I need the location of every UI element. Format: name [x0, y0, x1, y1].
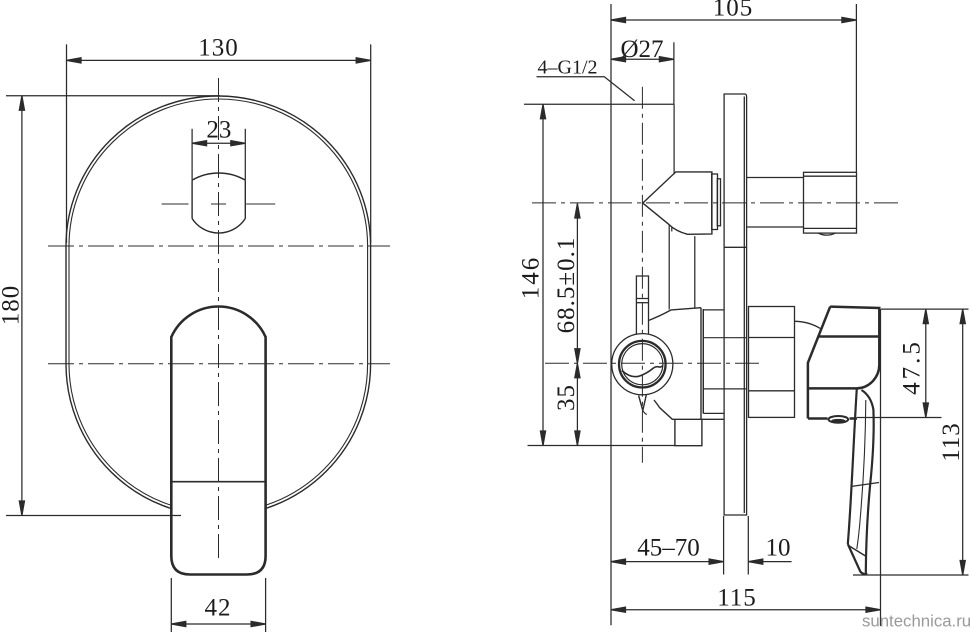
plate inner outline (front view)	[69, 99, 368, 513]
dimension 130 line	[67, 59, 371, 61]
dimension 23 extension lines	[191, 129, 193, 180]
collar ring 1	[712, 174, 718, 230]
diameter 27 right extension line	[673, 42, 675, 104]
svg-text:105: 105	[713, 0, 754, 22]
pointer below cartridge	[639, 395, 647, 411]
dimension 47.5 line	[925, 309, 927, 417]
handle blade	[848, 389, 874, 574]
svg-text:42: 42	[205, 595, 232, 622]
dimension 113 line	[962, 309, 964, 575]
bottom port stub	[675, 419, 702, 445]
valve body outline	[649, 308, 725, 420]
svg-text:23: 23	[206, 117, 231, 144]
dimension 45-70 line	[611, 561, 724, 563]
lever handle (front view)	[171, 307, 265, 575]
dimension 42 line	[171, 623, 265, 625]
sliding sleeve between body and plate	[703, 310, 746, 414]
svg-text:130: 130	[198, 35, 239, 62]
handle blade crease	[851, 483, 879, 487]
horizontal center line of top outlet (side view)	[532, 202, 903, 204]
collar ring 2	[717, 179, 720, 226]
water level squiggle inside cartridge	[622, 366, 663, 377]
lever handle joint line	[171, 481, 265, 483]
svg-text:180: 180	[0, 285, 25, 326]
handle top extension line	[881, 308, 969, 310]
cartridge outer circle	[612, 334, 673, 395]
svg-text:146: 146	[518, 256, 545, 300]
outlet pipe through plate	[747, 177, 804, 179]
top port bore right wall	[673, 104, 675, 174]
dimension 23 line	[192, 142, 245, 144]
handle blade tip facet	[849, 546, 866, 557]
knob center line horizontal	[162, 203, 276, 205]
handle blade inner detail line	[857, 400, 866, 549]
handle right extension line for 115	[880, 309, 882, 626]
svg-text:4–G1/2: 4–G1/2	[538, 57, 598, 79]
dimension 146 line	[542, 104, 544, 445]
svg-text:35: 35	[553, 384, 580, 411]
dimension 180 line	[21, 96, 23, 516]
elbow bottom extension line	[857, 417, 942, 419]
dimension 35 line	[576, 363, 578, 445]
dimension diameter 27 line	[611, 58, 674, 60]
dimension 42 extension lines	[170, 578, 172, 632]
horizontal center line lower (front view)	[48, 363, 390, 365]
plate extension lines below	[723, 516, 725, 575]
svg-text:10: 10	[766, 535, 791, 562]
neck below cone	[668, 225, 670, 310]
svg-text:Ø27: Ø27	[620, 36, 663, 63]
dimension 68.5 line	[576, 204, 578, 364]
dimension 10 line	[748, 561, 791, 563]
lever handle (side view)	[808, 307, 880, 419]
svg-text:suntechnica.ru: suntechnica.ru	[862, 612, 970, 631]
vertical center line (front view)	[218, 78, 220, 560]
top port flange plane line	[524, 103, 674, 105]
cartridge stem	[636, 276, 648, 334]
cartridge inner circle	[622, 344, 663, 385]
blade tip extension line	[853, 574, 969, 576]
svg-text:115: 115	[717, 585, 757, 612]
horizontal center line of cartridge axis (side view)	[545, 362, 763, 364]
bottom extension line for 146 and 35	[528, 445, 675, 447]
svg-text:45–70: 45–70	[637, 535, 700, 562]
vertical center line of top port (side view)	[641, 87, 643, 463]
diverter knob outline (front view)	[192, 173, 245, 233]
handle side flange	[749, 307, 795, 418]
thread callout leader line	[537, 77, 635, 101]
svg-text:47.5: 47.5	[899, 339, 926, 395]
horizontal center line upper (front view)	[48, 245, 390, 247]
mounting plane extension line	[610, 4, 612, 625]
top port cone	[643, 172, 712, 234]
set screw ellipse under handle	[829, 416, 849, 423]
cap dome arc	[795, 321, 821, 328]
cartridge bold ring	[619, 341, 666, 388]
wall fitting	[804, 172, 857, 235]
dimension 105 right extension line	[855, 4, 857, 172]
dimension 180 extension lines	[6, 95, 220, 97]
dimension 105 line	[611, 19, 856, 21]
svg-text:113: 113	[938, 422, 965, 462]
plate outer outline (front view)	[66, 96, 371, 516]
svg-text:68.5±0.1: 68.5±0.1	[553, 237, 580, 334]
wall plate edge-on	[724, 94, 747, 515]
dimension 130 extension lines	[66, 44, 68, 243]
dimension 115 line	[611, 609, 881, 611]
